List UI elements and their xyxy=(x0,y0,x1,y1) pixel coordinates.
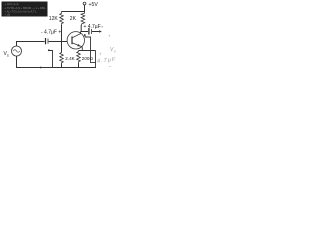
svg-text:+: + xyxy=(99,52,102,57)
wire: cap to base xyxy=(49,41,68,43)
wire: ground rail xyxy=(16,67,96,69)
capacitor C2 4.7uF output coupling xyxy=(89,28,92,35)
wire: base tap down to ground rail xyxy=(49,51,53,68)
wire: cap to output terminal with arrow xyxy=(92,30,102,33)
wire: source top to base wire xyxy=(17,42,45,47)
capacitor C1 4.7uF input coupling xyxy=(46,38,49,44)
wire: emitter rail xyxy=(79,50,96,52)
resistor R2 2K (zigzag) xyxy=(81,12,85,26)
svg-text:- 4.7µF +: - 4.7µF + xyxy=(41,30,61,36)
svg-text:200Ω: 200Ω xyxy=(82,56,94,61)
wire: collector tap down to emitter node xyxy=(85,36,91,51)
+5V supply terminal xyxy=(83,2,98,11)
svg-text:+ TU''RL,A,N + BRUM,,,+ 1 + DB: + TU''RL,A,N + BRUM,,,+ 1 + DBL xyxy=(5,6,46,10)
resistor R4 200 ohm (zigzag) xyxy=(77,51,81,63)
problem statement dark box xyxy=(2,2,48,17)
svg-text:12K: 12K xyxy=(49,16,59,22)
wire: divider column 12K bottom through base node down xyxy=(61,25,63,53)
resistor R1 12K (zigzag) xyxy=(60,12,64,25)
wire: 2K bottom to collector node xyxy=(80,25,82,32)
node C: rail dot xyxy=(40,67,42,69)
svg-text:+ 4.7µF: + 4.7µF xyxy=(84,24,101,30)
svg-text:+5V: +5V xyxy=(89,2,99,8)
svg-text:2.4K: 2.4K xyxy=(65,56,75,61)
svg-text:s: s xyxy=(7,54,9,58)
svg-text:+: + xyxy=(108,34,111,39)
wire: +5V rail xyxy=(62,11,85,13)
node B: base tap dot xyxy=(48,49,50,51)
svg-text:o: o xyxy=(114,50,116,54)
svg-text:+ HU,L,IL,IL: + HU,L,IL,IL xyxy=(5,2,20,6)
capacitor C3 bypass (box symbol) xyxy=(90,51,96,68)
source Vs xyxy=(12,46,22,56)
svg-text:+ LB: + LB xyxy=(5,12,11,16)
svg-text:2K: 2K xyxy=(70,16,77,22)
wire: 2.4K bottom to ground rail xyxy=(61,64,63,68)
node A: collector tap dot xyxy=(84,34,86,36)
wire: collector to node xyxy=(80,32,82,34)
resistor R3 2.4K (zigzag) xyxy=(60,53,64,64)
transistor Q1 xyxy=(67,32,84,49)
wire: 200 ohm bottom to ground rail xyxy=(78,63,80,68)
wire: source bottom to ground rail xyxy=(16,56,18,68)
wire: emitter lead down xyxy=(81,47,83,51)
svg-text:−: − xyxy=(109,64,112,70)
wire: collector node to output cap xyxy=(81,31,88,33)
